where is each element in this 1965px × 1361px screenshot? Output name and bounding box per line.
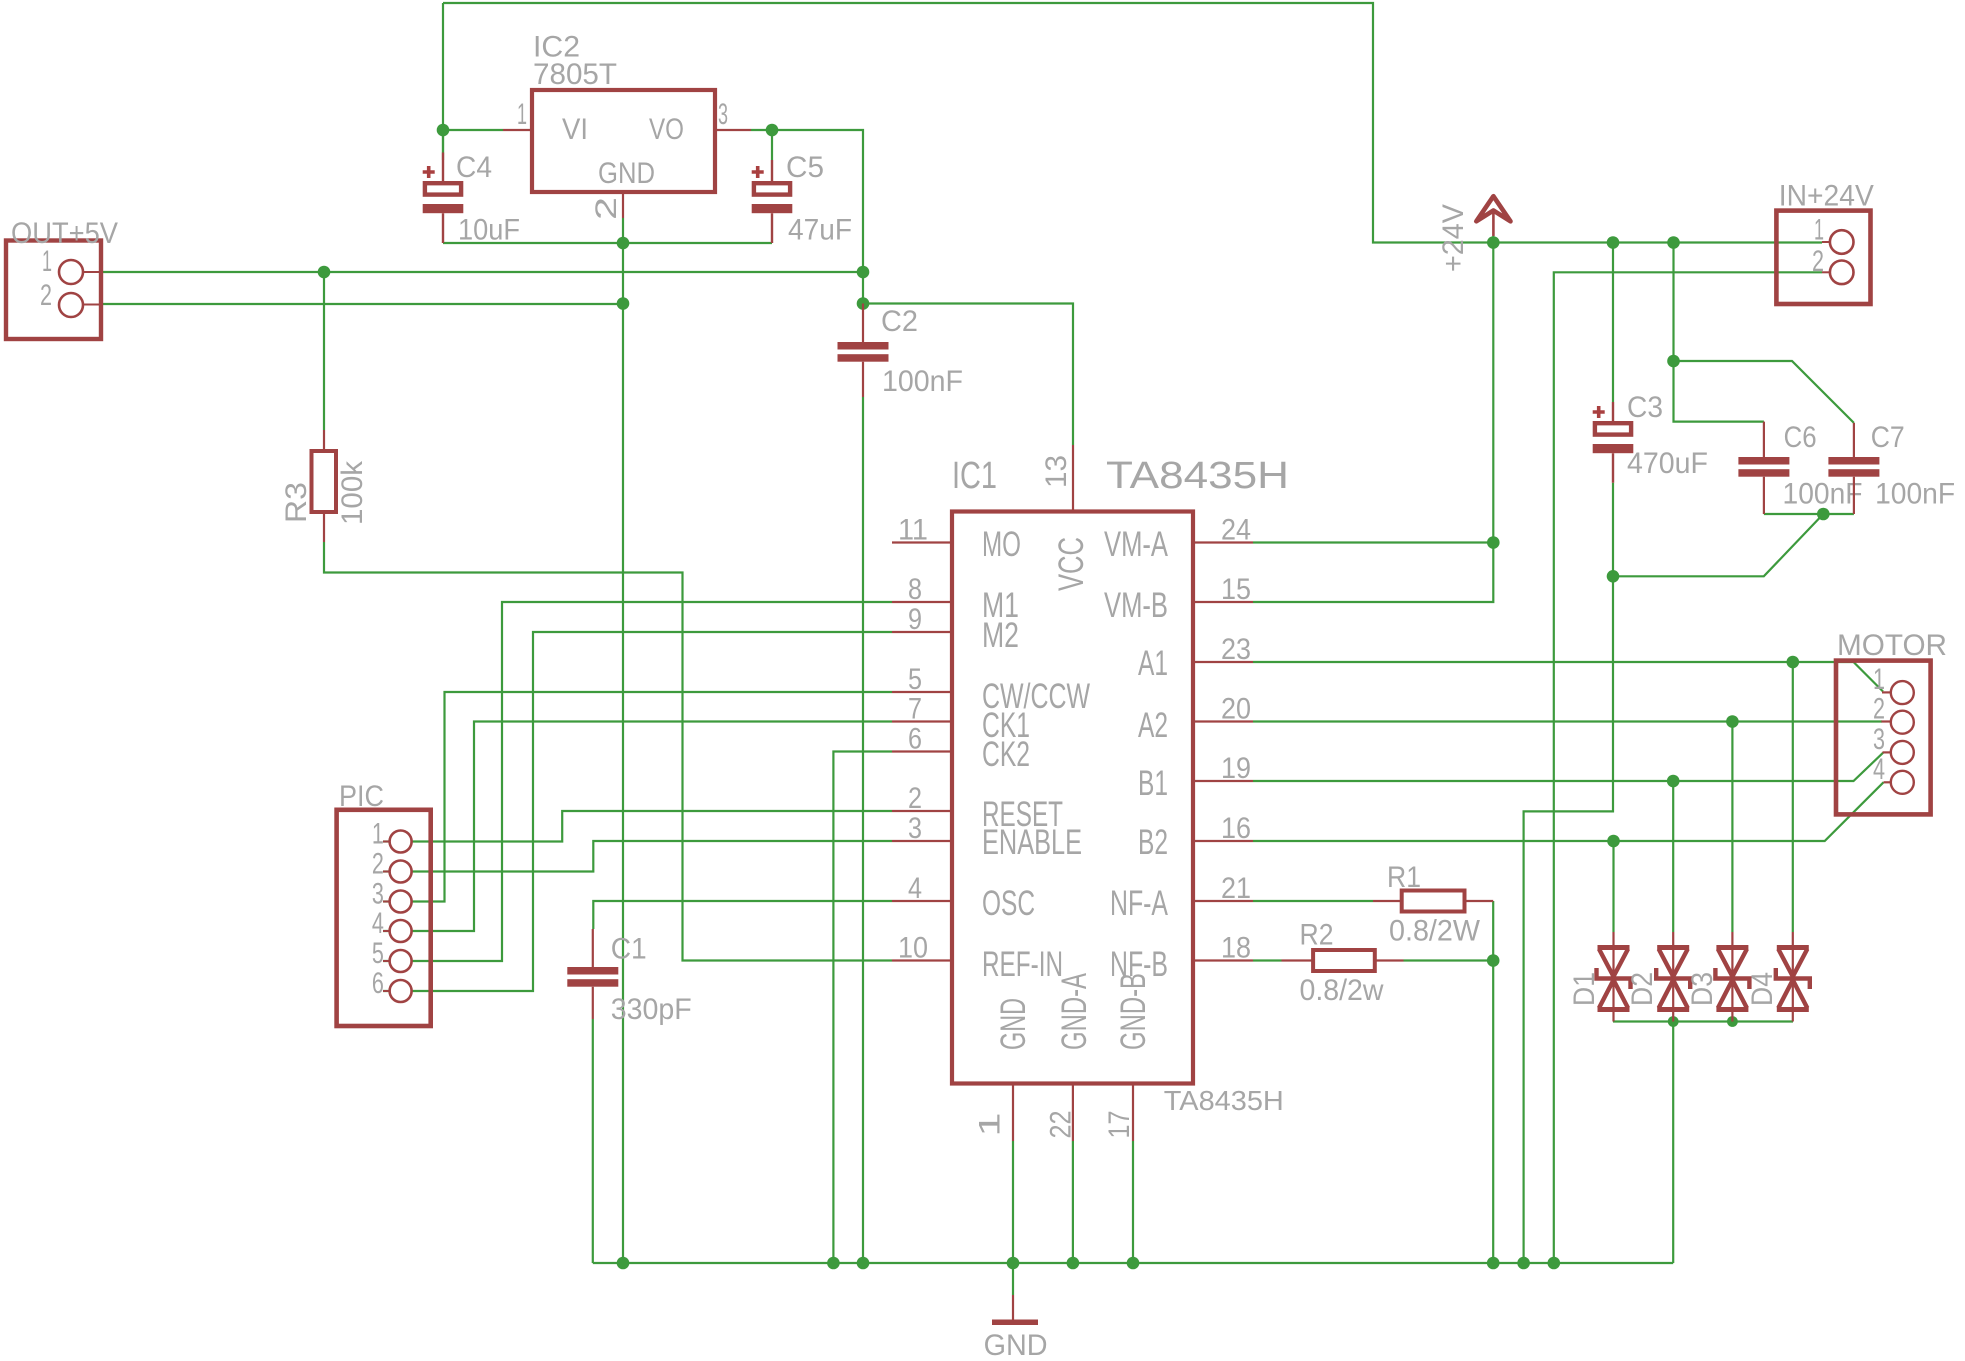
svg-text:2: 2 [590,197,623,220]
PIC pin 4 tick [383,930,391,932]
wire IC2 VI feed [442,3,444,153]
wire ground bus [593,1262,1673,1264]
OUT+5V pin 2 tick [83,304,100,306]
svg-text:D2: D2 [1626,972,1659,1006]
wire IC1 pin17 GND-B to bus [1132,1141,1134,1263]
IC1 pin 10 stub [892,959,952,961]
power symbol +24V arrow [1476,196,1510,236]
svg-text:7805T: 7805T [533,58,617,91]
svg-text:5: 5 [908,663,922,696]
junction bus GND pin1 [1007,1257,1020,1270]
IC1 pin 20 stub [1193,720,1253,722]
PIC pin 1 circle [390,831,412,853]
svg-text:M2: M2 [982,616,1019,655]
svg-text:MOTOR: MOTOR [1837,629,1947,662]
resistor R2 0.8/2w [1282,950,1404,971]
wire +5V line to OUT pin1 [100,271,863,273]
wire D1 feed from B2 [1612,841,1614,932]
svg-text:10: 10 [898,932,928,965]
PIC pin 2 tick [383,871,391,873]
junction C6C7 bottom node [1817,508,1830,521]
PIC pin 1 tick [383,841,391,843]
OUT+5V pin 2 circle [59,293,83,317]
wire junction to IC2 pin1 [443,129,503,131]
svg-text:100k: 100k [336,460,369,525]
svg-text:15: 15 [1221,573,1251,606]
wire OSC to C1 top [593,901,892,929]
capacitor C7 [1828,423,1879,514]
svg-text:2: 2 [1812,245,1824,278]
capacitor C2 [838,304,889,398]
svg-text:+24V: +24V [1437,204,1470,272]
junction +5V C2 node [857,266,870,279]
junction bus GND-B pin17 [1127,1257,1140,1270]
svg-text:21: 21 [1221,872,1251,905]
connector PIC body [337,810,431,1026]
svg-text:100nF: 100nF [1875,478,1955,511]
junction bus IC2GND [617,1257,630,1270]
diode D1 bidirectional suppressor [1597,932,1631,1022]
wire C3 bottom gnd path [1524,483,1613,1263]
svg-text:VO: VO [649,113,684,146]
IC1 pin 9 stub [892,631,952,633]
wire IN+24V pin2 down to bus [1554,272,1822,1263]
wire RESET to PIC1 [383,811,892,842]
svg-text:NF-A: NF-A [1110,884,1168,923]
svg-text:100nF: 100nF [882,365,963,398]
svg-text:18: 18 [1221,932,1251,965]
IC1 pin 23 stub [1193,661,1253,663]
svg-text:5: 5 [372,937,384,970]
IC1 pin 8 stub [892,601,952,603]
wire A2 pin20 to MOTOR2 [1253,720,1882,722]
svg-text:17: 17 [1103,1111,1136,1139]
wire C3 top [1612,243,1614,403]
PIC pin 5 tick [383,960,391,962]
svg-text:GND: GND [994,998,1033,1050]
svg-text:2: 2 [40,279,52,312]
junction bus R1R2 [1487,1257,1500,1270]
IC2 pin 2 GND stub [622,192,624,218]
diode D4 bidirectional suppressor [1776,932,1810,1022]
wire B1 pin19 to MOTOR3 [1253,753,1883,781]
stepper driver IC1 TA8435H body [952,512,1193,1084]
wire R3 top [323,272,325,430]
svg-text:4: 4 [372,907,384,940]
junction diode bus D2 [1668,1016,1679,1027]
junction bus C3gnd [1517,1257,1530,1270]
svg-text:1: 1 [1873,663,1885,696]
wire M2 to PIC6 [383,632,892,991]
svg-text:8: 8 [908,573,922,606]
junction GND OUT2 node [617,297,630,310]
wire R3 bottom to REF-IN [324,542,892,961]
connector OUT+5V body [6,241,101,340]
svg-text:C5: C5 [786,151,824,184]
IC1 pin 13 stub [1072,445,1074,512]
svg-text:PIC: PIC [339,780,384,813]
IN+24V pin 2 circle [1830,261,1854,285]
wire C1 bottom to bus [592,1019,594,1263]
PIC pin 3 circle [390,891,412,913]
junction C3 gnd node [1607,570,1620,583]
PIC pin 3 tick [383,901,391,903]
wire CK1 to PIC4 [383,722,892,932]
junction B2 D1 node [1607,835,1620,848]
wire ENABLE to PIC2 [383,841,892,872]
wire CW/CCW to PIC3 [383,692,892,902]
wire NF-A pin21 to R1 [1253,900,1373,902]
svg-text:TA8435H: TA8435H [1164,1085,1284,1116]
wire C4 top [442,130,444,160]
IC1 pin 16 stub [1193,840,1253,842]
svg-text:GND-B: GND-B [1114,973,1153,1050]
diode D3 bidirectional suppressor [1715,932,1749,1022]
svg-text:VM-B: VM-B [1104,586,1168,625]
svg-text:C6: C6 [1784,421,1817,454]
wire VO corner down to +5V line [772,130,863,304]
IC1 pin 6 stub [892,750,952,752]
junction A1 D4 node [1787,656,1800,669]
PIC pin 4 circle [390,920,412,942]
connector MOTOR body [1836,661,1931,815]
wire +24V top rail [443,3,1822,243]
svg-text:R2: R2 [1300,918,1334,951]
IC1 pin 3 stub [892,840,952,842]
svg-text:D3: D3 [1686,972,1719,1006]
wire IC2 GND down [622,218,624,1263]
svg-text:1: 1 [372,818,384,851]
svg-text:0.8/2w: 0.8/2w [1300,974,1384,1007]
wire diode bottom bus [1613,1020,1793,1022]
wire M1 to PIC5 [383,602,892,961]
IN+24V pin 2 tick [1822,271,1830,273]
svg-text:2: 2 [908,782,922,815]
IC1 pin 15 stub [1193,601,1253,603]
svg-text:R3: R3 [280,482,313,523]
svg-text:100nF: 100nF [1783,478,1863,511]
svg-text:4: 4 [908,872,922,905]
svg-text:19: 19 [1221,752,1251,785]
svg-text:TA8435H: TA8435H [1106,455,1289,497]
junction GND run node [617,237,630,250]
wire IC2 VO to C5 and +5V vertical [751,129,772,131]
junction A2 D3 node [1726,715,1739,728]
junction IC2 VO node [766,124,779,137]
svg-text:330pF: 330pF [611,993,692,1026]
svg-text:22: 22 [1045,1111,1078,1139]
svg-text:C1: C1 [611,933,647,966]
wire D4 feed from A1 [1792,662,1794,932]
svg-text:3: 3 [718,98,728,131]
capacitor C1 [567,929,618,1019]
MOTOR pin 4 circle [1891,771,1914,794]
wire +24V branch to C7 top [1674,361,1854,423]
svg-text:2: 2 [372,848,384,881]
OUT+5V pin 1 tick [83,271,100,273]
svg-text:MO: MO [982,525,1021,564]
resistor R3 100k [312,430,337,542]
svg-text:D4: D4 [1746,972,1779,1006]
wire D2 feed from B1 [1672,781,1674,932]
svg-text:REF-IN: REF-IN [982,945,1063,984]
svg-text:D1: D1 [1568,972,1601,1006]
svg-text:1: 1 [973,1113,1006,1137]
svg-text:23: 23 [1221,633,1251,666]
junction bus IN2 [1548,1257,1561,1270]
IC1 pin 19 stub [1193,780,1253,782]
svg-text:3: 3 [372,878,384,911]
svg-text:1: 1 [1814,213,1824,246]
svg-text:VCC: VCC [1052,537,1091,591]
svg-text:A1: A1 [1138,644,1168,683]
MOTOR pin 1 circle [1891,681,1914,704]
wire R2 to node [1404,959,1494,961]
IC1 pin 11 stub [892,541,952,543]
svg-text:1: 1 [517,98,527,131]
junction diode bus D3 [1727,1016,1738,1027]
svg-text:4: 4 [1873,753,1885,786]
IC1 pin 22 stub [1072,1084,1074,1142]
svg-text:10uF: 10uF [458,214,520,247]
IN+24V pin 1 tick [1822,241,1830,243]
junction bus CK2 [827,1257,840,1270]
IC1 pin 18 stub [1193,959,1253,961]
wire +24V to C6 C7 tops [1674,243,1764,422]
MOTOR pin 2 tick [1881,720,1891,722]
svg-text:47uF: 47uF [788,214,852,247]
svg-text:A2: A2 [1138,706,1168,745]
wire NF-B pin18 to R2 [1253,959,1282,961]
wire C5 top connection [771,130,773,160]
IC2 pin 3 VO stub [715,129,751,131]
wire C6-C7 bottom run [1764,513,1854,515]
diode D2 bidirectional suppressor [1656,932,1690,1022]
wire diode bus to gnd bus [1672,1022,1674,1264]
svg-text:GND-A: GND-A [1055,973,1094,1050]
svg-text:13: 13 [1040,455,1073,488]
junction bus C2 [857,1257,870,1270]
wire C3 gnd to C6 C7 bottoms [1613,514,1823,576]
MOTOR pin 4 tick [1884,781,1891,783]
svg-text:ENABLE: ENABLE [982,823,1082,862]
capacitor C3 470uF [1593,402,1634,483]
IC1 pin 2 stub [892,810,952,812]
wire R1 right down to R2 node [1492,901,1494,1263]
svg-text:C7: C7 [1871,421,1905,454]
wire VCC line to IC1 pin13 [863,304,1073,446]
svg-text:CK2: CK2 [982,735,1030,774]
junction IC2 VI node [437,124,450,137]
svg-text:3: 3 [1873,723,1885,756]
svg-text:GND: GND [598,157,655,190]
junction R3 +5V node [318,266,331,279]
voltage regulator IC2 7805T body [532,90,715,192]
svg-text:GND: GND [984,1329,1048,1361]
resistor R1 0.8/2W [1373,891,1493,912]
wire GND line OUT pin2 [100,303,623,305]
junction VCC C2 node [857,297,870,310]
wire A1 pin23 to MOTOR1 [1253,662,1883,692]
MOTOR pin 3 circle [1891,741,1914,764]
PIC pin 2 circle [390,861,412,883]
junction C6C7 top branch node [1667,355,1680,368]
capacitor C5 [752,160,793,243]
wire VM-B pin15 [1253,543,1493,603]
IC1 pin 21 stub [1193,900,1253,902]
IC1 pin 1 stub [1012,1084,1014,1142]
PIC pin 6 circle [390,980,412,1002]
junction VM node [1487,536,1500,549]
svg-text:0.8/2W: 0.8/2W [1389,915,1481,948]
IC1 pin 24 stub [1193,541,1253,543]
wire +24V drop to VM [1492,243,1494,543]
IN+24V pin 1 circle [1830,230,1854,254]
svg-text:C2: C2 [881,305,918,338]
svg-text:B2: B2 [1138,823,1168,862]
svg-text:16: 16 [1221,812,1251,845]
ground symbol GND [992,1295,1038,1325]
connector IN+24V body [1776,211,1870,304]
wire GND symbol stem [1012,1263,1014,1295]
wire C2 bottom to bus [862,397,864,1263]
svg-text:20: 20 [1221,693,1251,726]
IC1 pin 7 stub [892,720,952,722]
svg-text:IC1: IC1 [952,455,997,497]
capacitor C4 [423,153,464,244]
wire VM-A pin24 [1253,541,1493,543]
IC1 pin 4 stub [892,900,952,902]
svg-text:11: 11 [898,514,928,547]
svg-text:IN+24V: IN+24V [1779,179,1874,212]
svg-text:C3: C3 [1627,391,1663,424]
MOTOR pin 1 tick [1882,691,1891,693]
svg-text:1: 1 [42,245,52,278]
svg-text:VI: VI [562,113,588,146]
junction B1 D2 node [1667,775,1680,788]
wire IC1 pin22 GND-A to bus [1072,1141,1074,1263]
capacitor C6 [1738,422,1789,514]
MOTOR pin 3 tick [1883,751,1891,753]
wire GND run C4-C5 [443,242,772,244]
wire +24V arrow stem [1492,236,1494,243]
wire D3 feed from A2 [1731,722,1733,933]
wire CK2 to ground bus [833,752,892,1264]
junction +24V C6C7 node [1667,236,1680,249]
wire IC1 pin1 GND to bus [1012,1141,1014,1263]
IC1 pin 17 stub [1132,1084,1134,1142]
OUT+5V pin 1 circle [59,260,83,284]
svg-text:6: 6 [908,723,922,756]
svg-text:9: 9 [908,603,922,636]
svg-text:3: 3 [908,812,922,845]
wire B2 pin16 to MOTOR4 [1253,782,1884,841]
MOTOR pin 2 circle [1891,711,1914,734]
svg-text:7: 7 [908,693,922,726]
PIC pin 5 circle [390,950,412,972]
junction bus GND-A pin22 [1067,1257,1080,1270]
svg-text:6: 6 [372,967,384,1000]
svg-text:24: 24 [1221,514,1251,547]
svg-text:VM-A: VM-A [1104,525,1168,564]
IC2 pin 1 VI stub [503,129,532,131]
svg-text:OUT+5V: OUT+5V [11,217,118,250]
svg-text:470uF: 470uF [1627,447,1708,480]
junction +24V arrow node [1487,236,1500,249]
svg-text:R1: R1 [1387,861,1421,894]
svg-text:B1: B1 [1138,764,1168,803]
IC1 pin 5 stub [892,691,952,693]
junction +24V C3 node [1607,236,1620,249]
junction R1 R2 node [1487,954,1500,967]
svg-text:OSC: OSC [982,884,1035,923]
svg-text:C4: C4 [456,151,492,184]
PIC pin 6 tick [383,990,391,992]
